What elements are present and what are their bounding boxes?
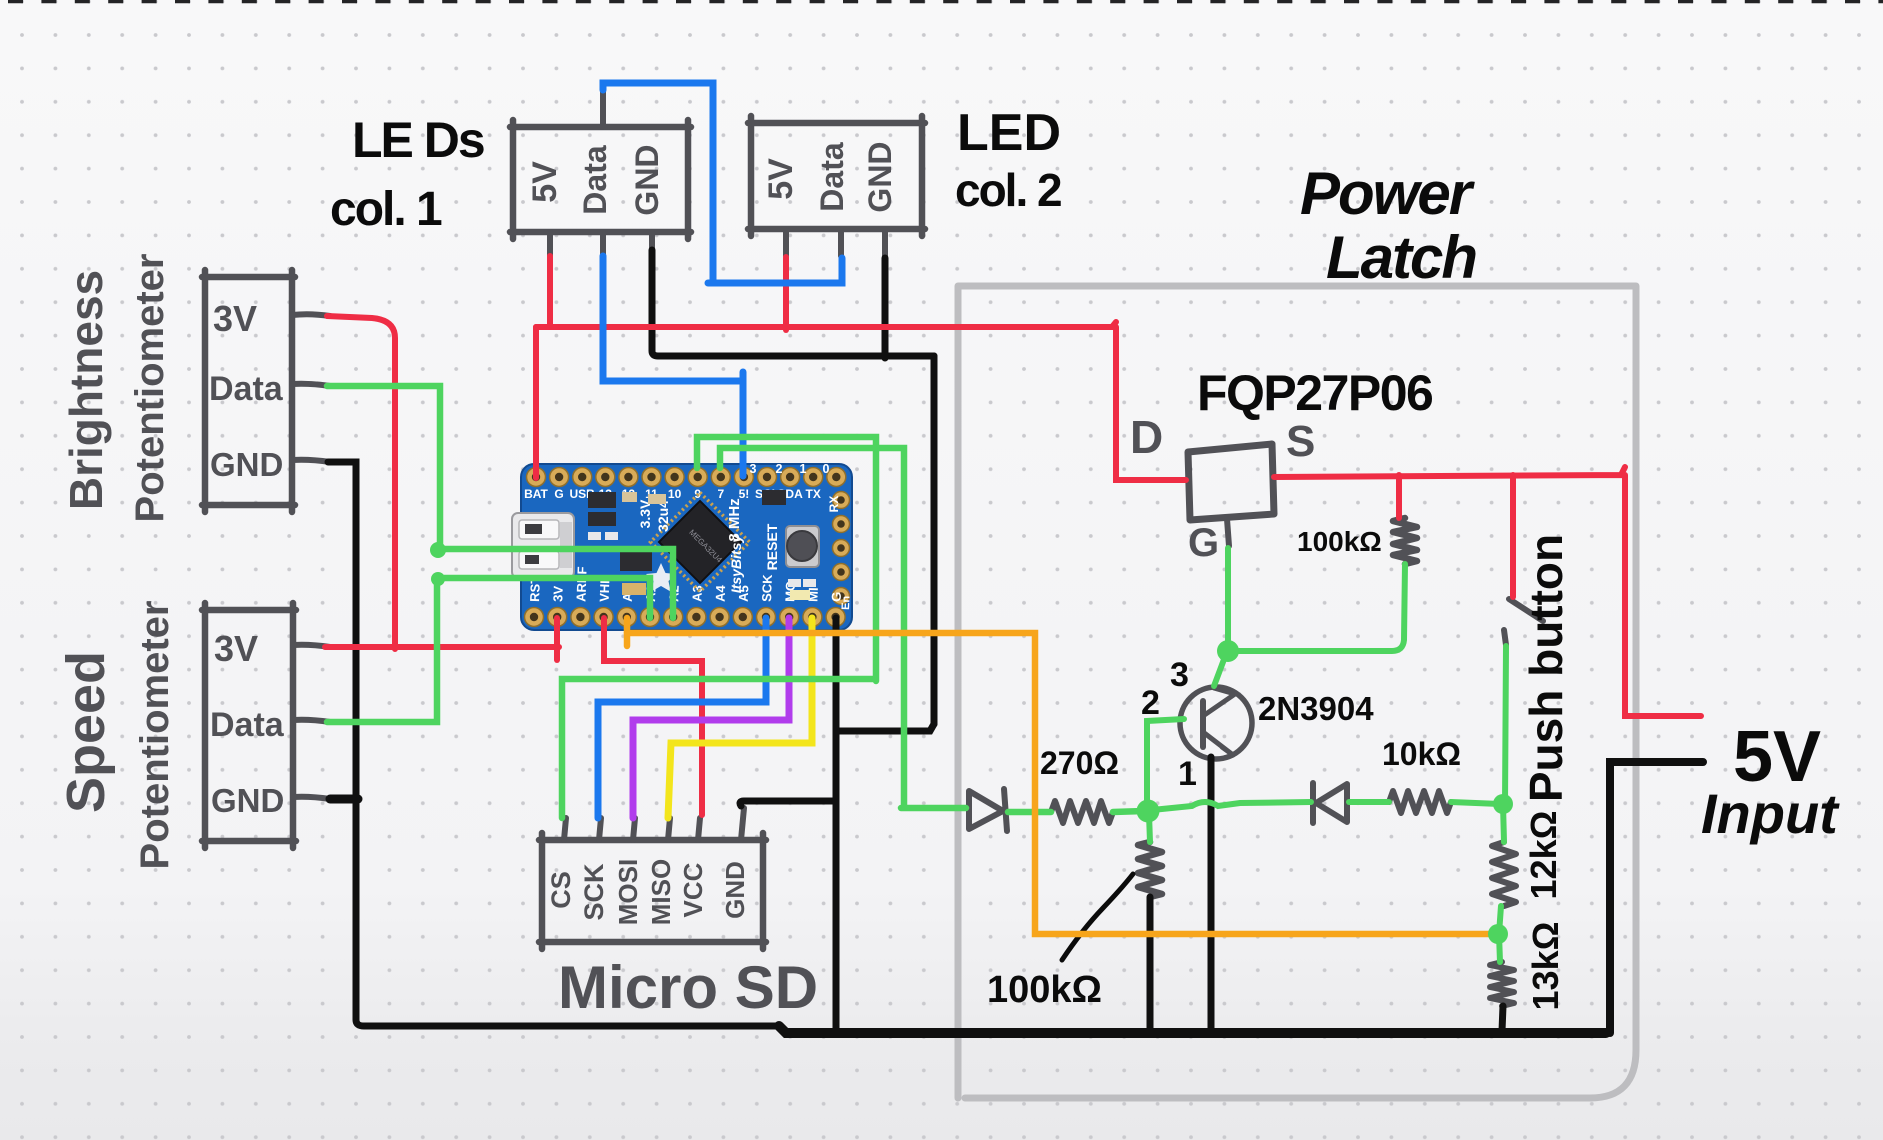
- microSD card box: [539, 833, 766, 949]
- svg-text:LED: LED: [957, 104, 1061, 162]
- svg-text:VCC: VCC: [678, 862, 708, 917]
- svg-text:270Ω: 270Ω: [1040, 745, 1119, 781]
- svg-text:32u4: 32u4: [655, 500, 671, 532]
- svg-text:MOSI: MOSI: [613, 859, 643, 925]
- callout stroke for 100k label: [1062, 874, 1133, 960]
- svg-text:100kΩ: 100kΩ: [1297, 526, 1382, 557]
- wire green: 100k pull-up bottom to gate node: [1232, 564, 1405, 651]
- svg-text:2: 2: [1141, 684, 1160, 722]
- wire green: base node up to transistor base: [1147, 719, 1184, 808]
- wire blue: SCK to microSD SCK: [598, 618, 766, 818]
- junction dot divider tap: [1488, 924, 1508, 944]
- svg-text:S: S: [1286, 417, 1315, 466]
- svg-text:10kΩ: 10kΩ: [1382, 736, 1461, 772]
- wire green: diode1 to 270 ohm: [1008, 809, 1051, 816]
- svg-text:GND: GND: [862, 141, 898, 212]
- wire red: 5V rail horizontal to FQP drain corner: [536, 322, 1186, 480]
- wire black: 13k bottom to ground: [1502, 1006, 1503, 1031]
- wire green: gate node to transistor collector pin 3: [1214, 654, 1226, 686]
- svg-text:Data: Data: [210, 706, 285, 744]
- microSD pin stubs: [564, 808, 744, 840]
- svg-text:SCK: SCK: [759, 574, 775, 603]
- svg-text:3: 3: [750, 462, 757, 476]
- wire blue: LED col1 data top loop to LED col2 data: [603, 83, 842, 283]
- junction dot base node: [1137, 800, 1160, 823]
- diode D2: [1313, 783, 1347, 823]
- resistor R5 12k: [1492, 842, 1516, 906]
- wire black: transistor emitter to ground: [1208, 757, 1215, 1031]
- svg-text:5V: 5V: [526, 161, 564, 203]
- wire red: speed pot 3V rail to itsybitsy 3V: [325, 644, 559, 650]
- wire green: base node right hop over emitter to diode2: [1152, 802, 1311, 810]
- Q1 base bar: [1200, 701, 1206, 747]
- svg-text:Speed: Speed: [56, 651, 116, 813]
- svg-text:En: En: [840, 595, 852, 610]
- wire black: microSD GND link: [740, 801, 834, 806]
- power latch enclosure box: [958, 286, 1636, 1098]
- resistor R3 100k pulldown: [1138, 842, 1162, 897]
- svg-text:Micro SD: Micro SD: [558, 954, 818, 1021]
- wire black: itsybitsy G pad down to ground rail: [833, 618, 840, 1031]
- potentiometer brightness box: [202, 270, 295, 512]
- svg-text:10: 10: [668, 487, 682, 501]
- microcontroller U1 ItsyBitsy 32u4 board: [512, 462, 852, 630]
- wire green: 12k to divider tap node: [1499, 906, 1501, 934]
- wire black: ground rail up right side to 5V input return: [1610, 762, 1703, 1033]
- resistor R1 270ohm: [1051, 801, 1113, 823]
- wire black: bottom ground rail thick: [779, 1026, 1606, 1033]
- wire red: itsybitsy 3V pad stub: [554, 618, 560, 660]
- svg-text:100kΩ: 100kΩ: [987, 969, 1102, 1011]
- svg-text:MISO: MISO: [646, 859, 676, 925]
- wire green: brightness pot data to A2: [327, 386, 673, 618]
- wire red: LED col2 5V down to 5V rail: [783, 257, 789, 330]
- wire orange: A0 stub: [624, 618, 631, 646]
- resistor R4 100k gate pull-up: [1393, 518, 1417, 564]
- junction dot speed data corner: [431, 572, 445, 586]
- svg-text:Latch: Latch: [1326, 224, 1476, 291]
- wire yellow: MISO to microSD MISO: [668, 618, 812, 818]
- svg-text:Potentiometer: Potentiometer: [128, 254, 172, 523]
- diode D1: [969, 789, 1007, 831]
- wire red: LED col1 5V down to 5V rail: [547, 256, 553, 327]
- wire black: brightness pot GND down left rail: [328, 462, 779, 1026]
- junction dot gate node: [1217, 640, 1239, 662]
- wire green: button node to 12k: [1503, 804, 1504, 842]
- svg-text:G: G: [554, 487, 563, 501]
- svg-text:3V: 3V: [213, 298, 257, 339]
- transistor FQP27P06 mosfet body: [1188, 444, 1274, 520]
- svg-text:A4: A4: [713, 584, 729, 602]
- svg-text:Potentiometer: Potentiometer: [133, 601, 177, 870]
- junction dot button node: [1493, 794, 1513, 814]
- svg-text:TX: TX: [806, 487, 821, 501]
- wire black: 100k bottom to ground: [1147, 897, 1154, 1031]
- top toolbar dashes: [8, 0, 1883, 3]
- wire purple: MOSI to microSD MOSI: [633, 618, 789, 818]
- svg-text:RX: RX: [827, 496, 841, 513]
- wire green: tap node to 13k: [1499, 934, 1500, 962]
- Q1 emitter stroke with arrow: [1203, 732, 1233, 758]
- transistor Q1 2N3904 circle: [1180, 687, 1252, 759]
- svg-text:12kΩ: 12kΩ: [1523, 811, 1564, 900]
- svg-text:Data: Data: [209, 370, 284, 408]
- svg-text:Push button: Push button: [1520, 534, 1572, 802]
- resistor R2 10k: [1389, 791, 1451, 813]
- speed pot pin stubs: [293, 645, 330, 799]
- FQP gate pin stub: [1227, 519, 1229, 546]
- wire black: LED GND rail down right of board: [931, 356, 938, 724]
- LED col1 pin stubs: [550, 88, 652, 256]
- svg-text:LE Ds: LE Ds: [352, 112, 484, 168]
- svg-text:CS: CS: [546, 871, 576, 909]
- wire green: diode2 to 10k: [1349, 799, 1389, 805]
- svg-text:Input: Input: [1701, 782, 1840, 845]
- LED col2 pin stubs: [786, 229, 885, 257]
- resistor R6 13k: [1490, 962, 1514, 1006]
- svg-text:RESET: RESET: [764, 523, 780, 570]
- wire green: pin 9 to microSD CS: [562, 437, 876, 818]
- svg-text:GND: GND: [211, 782, 284, 819]
- wire green: 270 ohm to node dot: [1113, 811, 1144, 812]
- svg-text:Data: Data: [577, 145, 613, 215]
- svg-text:D: D: [1130, 411, 1163, 463]
- wire black: LED col1 GND down and right: [652, 250, 934, 356]
- junction dot brightness data corner: [430, 542, 446, 558]
- wire black: LED col2 GND drop: [882, 258, 889, 358]
- svg-text:2: 2: [776, 462, 783, 476]
- push button SW1 lever: [1504, 599, 1543, 645]
- svg-text:1: 1: [1178, 755, 1197, 793]
- svg-text:13kΩ: 13kΩ: [1525, 922, 1566, 1011]
- svg-text:SCK: SCK: [579, 863, 609, 921]
- svg-text:GND: GND: [629, 144, 665, 215]
- svg-text:Data: Data: [814, 142, 850, 212]
- svg-text:7: 7: [717, 487, 724, 501]
- svg-text:3V: 3V: [214, 628, 258, 669]
- wire red: FQP source to right rail and 5V input: [1274, 467, 1701, 716]
- svg-text:col. 1: col. 1: [330, 183, 442, 236]
- connector LED col2 box: [748, 116, 925, 236]
- svg-text:3V: 3V: [550, 585, 566, 602]
- wire green: base node down to 100k: [1149, 814, 1150, 842]
- svg-text:GND: GND: [210, 446, 283, 483]
- svg-text:G: G: [1188, 521, 1219, 565]
- wire blue: LED col1 data down to pin 5!: [603, 256, 743, 476]
- svg-text:Power: Power: [1300, 160, 1476, 227]
- wire black: jog joining G wire: [839, 724, 934, 731]
- svg-text:Brightness: Brightness: [60, 270, 112, 510]
- svg-text:GND: GND: [720, 861, 750, 919]
- svg-text:1: 1: [800, 462, 807, 476]
- Q1 collector stroke: [1203, 688, 1235, 716]
- connector LED col1 box: [510, 120, 691, 239]
- svg-text:2N3904: 2N3904: [1258, 690, 1374, 727]
- svg-text:col. 2: col. 2: [955, 164, 1061, 216]
- brightness pot pin stubs: [292, 314, 330, 462]
- wire red: itsybitsy VHI to microSD VCC: [604, 618, 702, 815]
- wire green: speed pot data to A1: [327, 578, 650, 722]
- wire black: speed pot GND stub joining rail: [330, 795, 358, 804]
- wire red: BAT drop from 5V rail: [533, 327, 539, 478]
- svg-text:BAT: BAT: [524, 487, 548, 501]
- svg-text:5V: 5V: [762, 158, 800, 200]
- wire red: branch to 100k pull-up: [1396, 475, 1402, 518]
- wire red: branch to push button: [1510, 475, 1516, 597]
- wire green: 10k to button node: [1451, 802, 1500, 804]
- svg-text:3: 3: [1170, 656, 1189, 694]
- svg-text:0: 0: [823, 462, 830, 476]
- svg-text:VHI: VHI: [597, 580, 613, 602]
- wire green: push button down to button node: [1505, 646, 1506, 804]
- potentiometer speed box: [202, 603, 296, 848]
- wire orange: A0 sense line to divider tap: [627, 633, 1492, 934]
- wire green: FQP gate down to gate node: [1225, 548, 1231, 650]
- wire green: pin 7 to latch diode row: [720, 448, 966, 808]
- svg-text:AREF: AREF: [573, 566, 589, 602]
- svg-text:ItsyBitsy: ItsyBitsy: [728, 534, 744, 594]
- svg-text:FQP27P06: FQP27P06: [1197, 365, 1432, 421]
- wire red: brightness pot 3V to vertical: [327, 316, 395, 649]
